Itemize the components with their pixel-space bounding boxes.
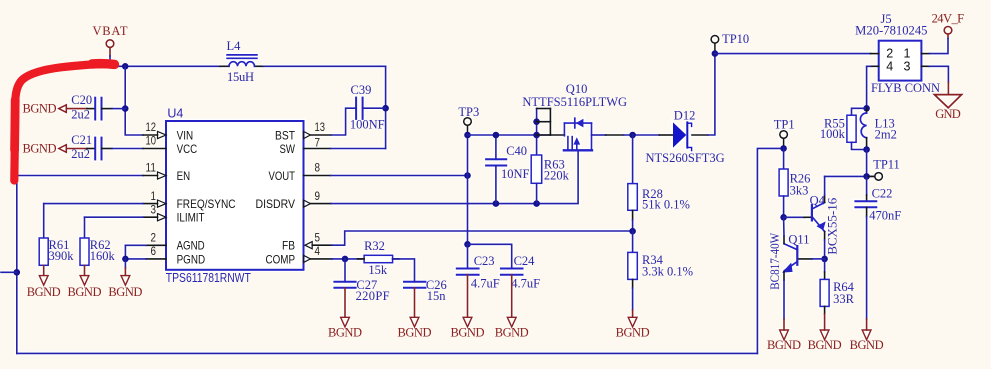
- IC U4: [166, 107, 304, 285]
- svg-text:TP3: TP3: [458, 105, 479, 119]
- svg-text:4.7uF: 4.7uF: [471, 277, 500, 291]
- svg-text:13: 13: [315, 122, 326, 134]
- inductor L13: [860, 108, 896, 149]
- wire VOUT: [331, 175, 468, 177]
- node R55/L13 top: [863, 105, 870, 112]
- node COMP junction: [342, 256, 349, 263]
- svg-text:10: 10: [146, 136, 157, 148]
- pin 6 PGND: [146, 246, 205, 266]
- svg-text:FB: FB: [282, 239, 295, 253]
- svg-text:BC817-40W: BC817-40W: [768, 233, 782, 290]
- test point TP3: [458, 105, 479, 125]
- wire TP11 row: [825, 175, 875, 177]
- svg-text:VBAT: VBAT: [93, 24, 128, 38]
- node TP3 main: [464, 132, 471, 139]
- svg-text:4: 4: [315, 246, 321, 258]
- node TP11 junction: [863, 173, 870, 180]
- wire left riser: [16, 176, 18, 354]
- svg-text:AGND: AGND: [177, 239, 205, 253]
- svg-text:PGND: PGND: [177, 252, 206, 266]
- node Q11 base junction: [821, 256, 828, 263]
- svg-text:7: 7: [315, 137, 321, 149]
- wire C39 to junction: [363, 107, 386, 109]
- svg-text:VOUT: VOUT: [269, 169, 296, 183]
- svg-text:5: 5: [315, 232, 321, 244]
- node TP10 tap: [712, 50, 719, 57]
- svg-text:6: 6: [151, 246, 157, 258]
- node left riser tap: [13, 269, 20, 276]
- power port BGND (R34): [616, 279, 650, 339]
- wire Q4 collector: [824, 195, 826, 203]
- svg-text:2m2: 2m2: [875, 127, 897, 141]
- capacitor C24: [501, 254, 540, 291]
- svg-text:R32: R32: [364, 239, 385, 253]
- pin 13 BST: [275, 122, 331, 142]
- pin 1 FREQ/SYNC: [143, 191, 236, 211]
- wire D12 to TP10 riser: [708, 54, 715, 135]
- node VOUT junction: [464, 172, 471, 179]
- pin 10 VCC: [143, 136, 197, 156]
- svg-text:C40: C40: [506, 144, 527, 158]
- power port BGND (C26): [398, 288, 432, 340]
- wire AGND elbow: [125, 244, 146, 246]
- power port VBAT: [93, 24, 128, 56]
- connector J5: [855, 12, 940, 95]
- svg-text:FREQ/SYNC: FREQ/SYNC: [177, 197, 236, 211]
- capacitor C40: [486, 132, 529, 204]
- svg-text:8: 8: [315, 163, 321, 175]
- svg-text:390k: 390k: [49, 249, 75, 263]
- inductor L4: [220, 39, 264, 84]
- svg-text:EN: EN: [177, 169, 191, 183]
- power port 24V_F: [932, 11, 965, 38]
- capacitor C20: [71, 93, 112, 121]
- capacitor C26: [404, 278, 447, 303]
- resistor R62: [80, 217, 116, 265]
- svg-text:BGND: BGND: [850, 338, 884, 352]
- pin 8 VOUT: [269, 163, 331, 183]
- svg-text:C24: C24: [514, 254, 536, 268]
- wire BST to C39: [331, 108, 356, 135]
- svg-text:1: 1: [151, 191, 157, 203]
- svg-text:TPS611781RNWT: TPS611781RNWT: [166, 271, 251, 285]
- diode D12: [646, 108, 725, 165]
- node C40 bottom: [493, 200, 500, 207]
- svg-text:SW: SW: [280, 142, 296, 156]
- svg-text:BGND: BGND: [398, 326, 432, 340]
- wire ILIMIT: [85, 216, 144, 218]
- svg-text:12: 12: [146, 122, 157, 134]
- svg-text:9: 9: [315, 191, 321, 203]
- svg-text:NTS260SFT3G: NTS260SFT3G: [646, 151, 725, 165]
- wire right riser to TP1: [757, 148, 783, 353]
- svg-text:U4: U4: [167, 107, 183, 121]
- svg-text:3: 3: [151, 204, 157, 216]
- node C39 junction: [382, 105, 389, 112]
- svg-text:C20: C20: [71, 93, 92, 107]
- node Q4 base junction: [780, 214, 787, 221]
- svg-text:220k: 220k: [544, 168, 570, 182]
- wire L4 to corner: [264, 65, 386, 67]
- pin 9 DISDRV: [256, 191, 332, 211]
- svg-text:NTTFS5116PLTWG: NTTFS5116PLTWG: [522, 95, 627, 109]
- capacitor C27: [334, 259, 389, 303]
- svg-text:15uH: 15uH: [227, 70, 254, 84]
- svg-text:10NF: 10NF: [501, 167, 530, 181]
- pin 5 FB: [282, 232, 332, 252]
- svg-text:160k: 160k: [90, 249, 116, 263]
- wire bottom bus: [17, 352, 758, 354]
- svg-text:TP1: TP1: [774, 118, 795, 132]
- node C23 junction: [464, 241, 471, 248]
- power port BGND (C21): [23, 141, 88, 155]
- svg-text:15n: 15n: [427, 289, 447, 303]
- svg-text:ILIMIT: ILIMIT: [177, 211, 206, 225]
- resistor R64: [820, 259, 855, 307]
- svg-text:VIN: VIN: [177, 128, 194, 142]
- svg-text:15k: 15k: [368, 263, 388, 277]
- svg-text:51k 0.1%: 51k 0.1%: [642, 198, 690, 212]
- resistor R55: [820, 108, 867, 149]
- annotation red marker: [14, 64, 114, 180]
- power port BGND (C23): [451, 275, 485, 340]
- svg-text:DISDRV: DISDRV: [256, 197, 296, 211]
- svg-text:BGND: BGND: [616, 326, 650, 340]
- svg-text:BST: BST: [275, 128, 296, 142]
- svg-text:C39: C39: [351, 83, 372, 97]
- pin 3 ILIMIT: [143, 204, 205, 224]
- wire J5 pin3 to GND: [930, 66, 949, 82]
- svg-text:3: 3: [904, 59, 911, 73]
- wire corner down to SW: [385, 66, 387, 148]
- resistor R61: [39, 204, 74, 266]
- node AGND/PGND junction: [122, 256, 129, 263]
- svg-text:BGND: BGND: [808, 338, 842, 352]
- power port BGND (C22): [850, 217, 884, 352]
- wire main top: [52, 65, 220, 67]
- wire C23 to C24: [468, 244, 512, 268]
- svg-text:BGND: BGND: [767, 338, 801, 352]
- node VBAT junction: [122, 63, 129, 70]
- pin 2 AGND: [146, 233, 205, 253]
- svg-text:VCC: VCC: [177, 142, 198, 156]
- svg-text:11: 11: [146, 163, 157, 175]
- svg-text:GND: GND: [935, 107, 961, 121]
- wire left edge stub: [1, 271, 17, 273]
- node C20 junction: [122, 105, 129, 112]
- wire Q4 base: [784, 216, 804, 218]
- wire Q11 base: [797, 258, 812, 260]
- svg-text:TP11: TP11: [873, 158, 900, 172]
- wire C21 to VCC: [112, 148, 143, 150]
- wire TP3 vertical: [467, 125, 469, 135]
- wire C20 to junction: [112, 108, 125, 110]
- svg-text:C21: C21: [71, 133, 92, 147]
- svg-text:C23: C23: [474, 254, 495, 268]
- node TP1 junction: [780, 145, 787, 152]
- svg-text:3k3: 3k3: [790, 184, 809, 198]
- power port BGND (PGND): [108, 259, 142, 299]
- node R63 bottom: [533, 200, 540, 207]
- transistor Q4: [810, 194, 840, 255]
- svg-text:C22: C22: [872, 187, 893, 201]
- resistor R63: [531, 109, 569, 204]
- svg-text:COMP: COMP: [266, 252, 296, 266]
- svg-text:BGND: BGND: [68, 285, 102, 299]
- resistor R28: [628, 135, 690, 231]
- svg-text:L4: L4: [227, 39, 242, 53]
- wire Q4 emitter: [824, 232, 826, 241]
- capacitor C21: [71, 133, 112, 161]
- pin 4 COMP: [266, 246, 333, 266]
- wire TP10 to J5: [715, 53, 871, 55]
- wire VBAT stub: [109, 56, 111, 66]
- wire J5 pin1 to 24V_F: [930, 39, 949, 54]
- svg-text:D12: D12: [674, 108, 696, 122]
- wire FREQ/SYNC: [44, 203, 143, 205]
- power port BGND (R61): [27, 265, 61, 299]
- svg-text:470nF: 470nF: [869, 209, 901, 223]
- capacitor C23: [457, 244, 500, 290]
- node FB divider: [629, 228, 636, 235]
- power port BGND (Q11): [767, 272, 801, 352]
- power port BGND (R64): [808, 306, 842, 352]
- resistor R34: [628, 231, 693, 279]
- node R28 top: [629, 132, 636, 139]
- wire Q10 drain to D12: [592, 134, 606, 136]
- svg-text:4.7uF: 4.7uF: [511, 277, 540, 291]
- pin 12 VIN: [143, 122, 193, 142]
- node R55/L13 bottom: [863, 146, 870, 153]
- svg-text:BGND: BGND: [108, 285, 142, 299]
- svg-text:2: 2: [151, 233, 157, 245]
- wire SW: [331, 148, 386, 150]
- power port BGND (C24): [495, 275, 529, 340]
- test point TP11: [867, 158, 900, 181]
- wire PGND: [125, 258, 146, 260]
- wire J5 pin4 down: [867, 66, 871, 108]
- svg-text:220PF: 220PF: [356, 289, 390, 303]
- wire VIN drop: [125, 66, 143, 135]
- transistor Q11: [768, 233, 809, 290]
- resistor R26: [779, 148, 810, 217]
- svg-text:3.3k 0.1%: 3.3k 0.1%: [642, 265, 693, 279]
- wire to TP11 row: [866, 150, 868, 177]
- wire Q11 collector: [783, 236, 785, 244]
- test point TP1: [774, 118, 795, 139]
- transistor Q10: [522, 82, 627, 150]
- power port GND: [934, 82, 961, 121]
- svg-text:BCX55-16: BCX55-16: [826, 198, 840, 255]
- pin 11 EN: [143, 163, 190, 183]
- wire R32 to C26: [393, 259, 415, 282]
- wire TP1 stub: [783, 138, 785, 148]
- svg-text:33R: 33R: [833, 292, 855, 306]
- svg-text:BGND: BGND: [495, 326, 529, 340]
- svg-text:M20-7810245: M20-7810245: [855, 23, 927, 37]
- wire EN from left riser: [17, 175, 143, 177]
- svg-text:BGND: BGND: [23, 102, 57, 116]
- svg-text:BGND: BGND: [23, 141, 57, 155]
- svg-text:BGND: BGND: [451, 326, 485, 340]
- svg-text:Q11: Q11: [788, 233, 809, 247]
- svg-text:BGND: BGND: [328, 326, 362, 340]
- svg-text:100k: 100k: [820, 127, 846, 141]
- power port BGND (C27): [328, 288, 362, 340]
- test point TP10: [711, 32, 749, 46]
- svg-text:TP10: TP10: [722, 32, 749, 46]
- wire main mid: [468, 134, 551, 136]
- svg-text:FLYB CONN: FLYB CONN: [871, 81, 940, 95]
- wire DISDRV: [331, 150, 578, 203]
- power port BGND (C20): [23, 102, 88, 116]
- pin 7 SW: [280, 137, 331, 156]
- resistor R32: [358, 239, 400, 277]
- power port BGND (R62): [68, 265, 102, 299]
- wire FB: [332, 231, 633, 245]
- svg-text:4: 4: [886, 59, 893, 73]
- svg-text:BGND: BGND: [27, 285, 61, 299]
- svg-text:24V_F: 24V_F: [932, 11, 965, 25]
- wire COMP: [332, 258, 364, 260]
- capacitor C39: [350, 83, 385, 132]
- capacitor C22: [855, 176, 901, 222]
